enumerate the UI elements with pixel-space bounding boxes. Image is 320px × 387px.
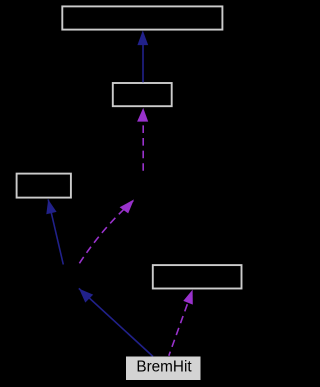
- node N2: middle class box: [113, 83, 172, 106]
- edge E6: dashed usage arrow BremHit -> N4: [169, 290, 193, 356]
- edge E5: solid inheritance arrow (hidden node A) -> N3 (wire): [46, 200, 63, 265]
- node N1: top base-class box: [62, 6, 222, 29]
- node N3: left class box: [17, 174, 71, 198]
- edge E3: dashed usage arrow (hidden node A) -> (hidden node B), curved: [78, 199, 134, 265]
- edge E2: dashed usage arrow (hidden node B) -> N2: [137, 108, 148, 173]
- node BremHit: current class (filled gray): [126, 357, 201, 381]
- node N4: right class box: [153, 265, 242, 288]
- svg-text:BremHit: BremHit: [136, 359, 192, 376]
- edge E1: solid inheritance arrow N2 -> N1 (wire): [137, 31, 148, 83]
- edge E4: solid inheritance arrow BremHit -> (hidden node A) (wire): [79, 288, 153, 356]
